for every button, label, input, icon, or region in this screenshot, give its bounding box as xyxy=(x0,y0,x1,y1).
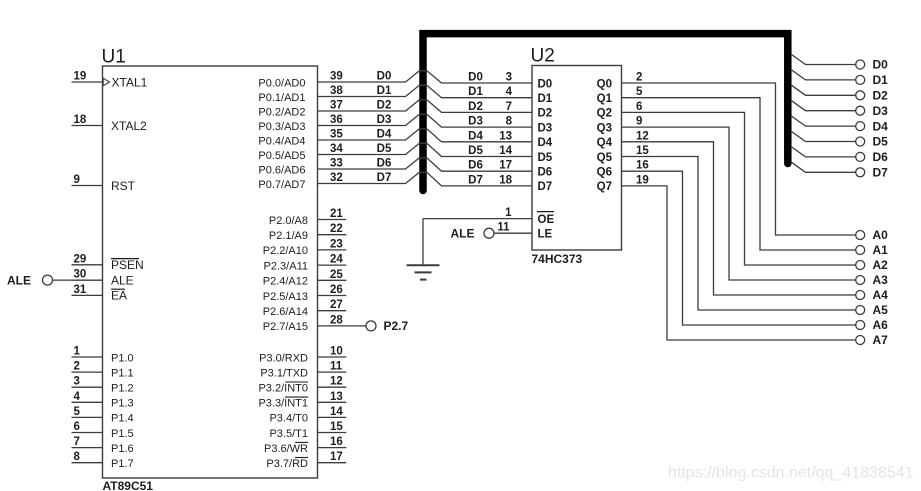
svg-text:P0.5/AD5: P0.5/AD5 xyxy=(258,150,305,162)
svg-text:P0.3/AD3: P0.3/AD3 xyxy=(258,121,305,133)
svg-text:36: 36 xyxy=(330,114,343,126)
svg-text:P3.1/TXD: P3.1/TXD xyxy=(260,367,308,379)
svg-text:P2.4/A12: P2.4/A12 xyxy=(263,276,308,288)
U2 labels D7 / Q7 xyxy=(538,181,613,193)
svg-text:P1.6: P1.6 xyxy=(111,443,134,455)
U1 pin 31 EA (active low) xyxy=(72,284,128,303)
terminal D2 xyxy=(856,89,888,103)
svg-text:XTAL1: XTAL1 xyxy=(112,75,148,89)
terminal ALE (at U2 LE) xyxy=(451,227,495,241)
terminal A7 xyxy=(856,333,888,347)
svg-text:14: 14 xyxy=(330,406,343,418)
svg-text:35: 35 xyxy=(330,129,343,141)
svg-text:A1: A1 xyxy=(873,243,889,257)
svg-text:30: 30 xyxy=(74,269,87,281)
wire bus to terminal D7 xyxy=(792,162,856,172)
U1 pin 23 P2.2/A10 xyxy=(263,238,347,257)
U1 pin 9 RST xyxy=(72,174,136,193)
svg-text:9: 9 xyxy=(74,174,80,186)
svg-text:7: 7 xyxy=(74,436,80,448)
wire P0.5/AD5 from U1 to bus to U2 D5 xyxy=(258,143,532,162)
U2 pin 9 Q3 wire to terminal A3 xyxy=(622,116,856,280)
svg-text:16: 16 xyxy=(330,436,343,448)
svg-text:27: 27 xyxy=(330,299,343,311)
svg-text:3: 3 xyxy=(506,72,512,84)
wire bus to terminal D1 xyxy=(792,70,856,80)
bus AD0-AD7 (thick) xyxy=(423,34,788,191)
svg-text:17: 17 xyxy=(330,451,343,463)
svg-text:P0.7/AD7: P0.7/AD7 xyxy=(258,179,305,191)
svg-text:P0.1/AD1: P0.1/AD1 xyxy=(258,92,305,104)
wire bus to terminal D3 xyxy=(792,101,856,111)
svg-text:16: 16 xyxy=(636,160,649,172)
svg-text:P1.3: P1.3 xyxy=(111,398,134,410)
svg-text:6: 6 xyxy=(636,101,642,113)
svg-text:28: 28 xyxy=(330,314,343,326)
svg-text:12: 12 xyxy=(330,376,343,388)
svg-text:P2.7/A15: P2.7/A15 xyxy=(263,321,308,333)
svg-text:D5: D5 xyxy=(873,135,889,149)
svg-text:https://blog.csdn.net/qq_41838: https://blog.csdn.net/qq_41838541 xyxy=(668,465,914,482)
svg-text:OE: OE xyxy=(538,214,555,226)
U2 labels D0 / Q0 xyxy=(538,78,613,90)
terminal P2.7 xyxy=(366,319,409,333)
svg-text:Q7: Q7 xyxy=(597,181,612,193)
svg-text:D1: D1 xyxy=(468,86,483,98)
svg-text:19: 19 xyxy=(636,174,649,186)
svg-text:1: 1 xyxy=(74,346,81,358)
wire P0.0/AD0 from U1 to bus to U2 D0 xyxy=(258,71,532,90)
U2 pin 15 Q5 wire to terminal A5 xyxy=(622,145,856,310)
U2 pin 11 LE xyxy=(494,222,553,241)
svg-text:6: 6 xyxy=(74,421,80,433)
wire P0.4/AD4 from U1 to bus to U2 D4 xyxy=(258,129,532,148)
svg-text:ALE: ALE xyxy=(451,227,475,241)
svg-text:D7: D7 xyxy=(873,166,889,180)
svg-text:11: 11 xyxy=(497,222,510,234)
U1 pin 15 P3.5/T1 xyxy=(269,421,346,440)
svg-text:26: 26 xyxy=(330,284,343,296)
wire P0.7/AD7 from U1 to bus to U2 D7 xyxy=(258,172,532,191)
svg-text:15: 15 xyxy=(636,145,649,157)
svg-text:2: 2 xyxy=(636,72,642,84)
svg-text:13: 13 xyxy=(499,130,512,142)
svg-text:38: 38 xyxy=(330,85,343,97)
U1 pin 21 P2.0/A8 xyxy=(269,208,346,227)
svg-text:D2: D2 xyxy=(468,101,483,113)
wire bus to terminal D2 xyxy=(792,85,856,95)
svg-text:A5: A5 xyxy=(873,303,889,317)
U2 pin 5 Q1 wire to terminal A1 xyxy=(622,86,856,250)
U1 pin 13 P3.3/INT1 xyxy=(258,391,346,410)
svg-text:8: 8 xyxy=(506,116,513,128)
svg-text:P2.0/A8: P2.0/A8 xyxy=(269,215,308,227)
U2 labels D5 / Q5 xyxy=(538,152,613,164)
svg-text:P2.6/A14: P2.6/A14 xyxy=(263,306,308,318)
svg-text:D7: D7 xyxy=(468,174,483,186)
svg-text:P2.1/A9: P2.1/A9 xyxy=(269,230,308,242)
terminal A6 xyxy=(856,318,888,332)
U1 pin 8 P1.7 xyxy=(72,451,134,470)
wire OE to ground xyxy=(422,219,424,265)
U1 pin 29 PSEN (active low) xyxy=(72,253,144,272)
svg-text:D0: D0 xyxy=(873,58,889,72)
wire bus to terminal D0 xyxy=(792,55,856,65)
svg-text:18: 18 xyxy=(74,114,87,126)
svg-text:Q3: Q3 xyxy=(597,122,612,134)
U1 pin 12 P3.2/INT0 xyxy=(258,376,346,395)
svg-text:PSEN: PSEN xyxy=(111,258,144,272)
svg-text:P1.5: P1.5 xyxy=(111,428,134,440)
U1 pin 26 P2.5/A13 xyxy=(263,284,347,303)
U1 pin 25 P2.4/A12 xyxy=(263,269,347,288)
svg-text:LE: LE xyxy=(538,229,553,241)
svg-text:P2.7: P2.7 xyxy=(384,319,409,333)
U2 pin 6 Q2 wire to terminal A2 xyxy=(622,101,856,265)
svg-text:A2: A2 xyxy=(873,258,889,272)
svg-text:D7: D7 xyxy=(377,172,392,184)
svg-text:ALE: ALE xyxy=(7,273,31,287)
svg-text:Q1: Q1 xyxy=(597,93,613,105)
svg-text:10: 10 xyxy=(330,346,343,358)
svg-text:D5: D5 xyxy=(538,152,553,164)
svg-text:D6: D6 xyxy=(468,160,483,172)
svg-text:8: 8 xyxy=(74,451,81,463)
svg-text:24: 24 xyxy=(330,254,343,266)
svg-text:Q5: Q5 xyxy=(597,152,613,164)
svg-text:D4: D4 xyxy=(873,119,889,133)
svg-text:31: 31 xyxy=(74,284,87,296)
svg-text:D3: D3 xyxy=(468,116,483,128)
svg-text:5: 5 xyxy=(74,406,81,418)
wire P0.2/AD2 from U1 to bus to U2 D2 xyxy=(258,100,532,119)
svg-text:17: 17 xyxy=(499,160,512,172)
svg-text:A6: A6 xyxy=(873,318,889,332)
terminal ALE (left) xyxy=(7,273,53,287)
U1 pin 4 P1.3 xyxy=(72,391,134,410)
wire bus to terminal D5 xyxy=(792,132,856,142)
svg-text:D4: D4 xyxy=(468,130,483,142)
wire ALE terminal to U1 pin 30 xyxy=(53,279,103,281)
U1 pin 11 P3.1/TXD xyxy=(260,361,346,380)
svg-text:Q6: Q6 xyxy=(597,167,612,179)
svg-text:23: 23 xyxy=(330,238,343,250)
U2 pin 2 Q0 wire to terminal A0 xyxy=(622,72,856,236)
svg-text:P1.4: P1.4 xyxy=(111,413,134,425)
svg-text:U2: U2 xyxy=(531,46,555,67)
svg-text:25: 25 xyxy=(330,269,343,281)
svg-text:7: 7 xyxy=(506,101,512,113)
svg-text:D6: D6 xyxy=(377,158,392,170)
svg-text:A3: A3 xyxy=(873,273,889,287)
svg-text:P1.7: P1.7 xyxy=(111,458,134,470)
svg-text:4: 4 xyxy=(506,86,513,98)
U1 pin 3 P1.2 xyxy=(72,376,134,395)
svg-text:P2.3/A11: P2.3/A11 xyxy=(264,260,308,272)
svg-text:P3.2/INT0: P3.2/INT0 xyxy=(258,383,308,395)
svg-text:1: 1 xyxy=(505,207,512,219)
wire P0.1/AD1 from U1 to bus to U2 D1 xyxy=(258,85,532,104)
svg-text:A4: A4 xyxy=(873,288,889,302)
terminal D4 xyxy=(856,119,888,133)
svg-text:D3: D3 xyxy=(873,104,889,118)
wire bus to terminal D6 xyxy=(792,147,856,157)
svg-text:D2: D2 xyxy=(377,100,392,112)
svg-text:5: 5 xyxy=(636,86,643,98)
svg-text:P3.4/T0: P3.4/T0 xyxy=(269,413,308,425)
svg-text:P0.6/AD6: P0.6/AD6 xyxy=(258,164,305,176)
svg-text:P1.2: P1.2 xyxy=(111,383,134,395)
U2 labels D1 / Q1 xyxy=(538,93,613,105)
svg-text:EA: EA xyxy=(111,289,127,303)
svg-text:P1.0: P1.0 xyxy=(111,352,134,364)
svg-text:21: 21 xyxy=(330,208,343,220)
svg-text:19: 19 xyxy=(74,71,87,83)
svg-text:D1: D1 xyxy=(377,85,392,97)
svg-text:33: 33 xyxy=(330,158,343,170)
svg-text:P2.2/A10: P2.2/A10 xyxy=(263,245,308,257)
U1 pin 6 P1.5 xyxy=(72,421,134,440)
svg-text:Q4: Q4 xyxy=(597,137,613,149)
svg-text:D5: D5 xyxy=(468,145,483,157)
watermark xyxy=(668,465,914,482)
U2 pin 19 Q7 wire to terminal A7 xyxy=(622,174,856,340)
U1 pin 1 P1.0 xyxy=(72,346,134,365)
chip U2 74HC373 body xyxy=(531,46,622,267)
svg-text:12: 12 xyxy=(636,130,649,142)
svg-text:P3.7/RD: P3.7/RD xyxy=(266,458,308,470)
U1 pin 7 P1.6 xyxy=(72,436,134,455)
U2 pin 16 Q6 wire to terminal A6 xyxy=(622,160,856,325)
svg-text:13: 13 xyxy=(330,391,343,403)
svg-text:14: 14 xyxy=(499,145,512,157)
U1 pin 14 P3.4/T0 xyxy=(269,406,346,425)
svg-text:P0.0/AD0: P0.0/AD0 xyxy=(258,77,305,89)
svg-text:P2.5/A13: P2.5/A13 xyxy=(263,291,308,303)
svg-text:P1.1: P1.1 xyxy=(111,367,134,379)
svg-text:RST: RST xyxy=(111,179,136,193)
U1 pin 5 P1.4 xyxy=(72,406,134,425)
svg-text:P3.5/T1: P3.5/T1 xyxy=(269,428,308,440)
svg-text:A7: A7 xyxy=(873,333,889,347)
svg-text:D4: D4 xyxy=(377,129,392,141)
svg-text:Q2: Q2 xyxy=(597,108,612,120)
svg-text:39: 39 xyxy=(330,71,343,83)
svg-text:D4: D4 xyxy=(538,137,553,149)
svg-text:XTAL2: XTAL2 xyxy=(111,119,147,133)
svg-text:AT89C51: AT89C51 xyxy=(103,479,154,491)
terminal A5 xyxy=(856,303,888,317)
terminal D3 xyxy=(856,104,888,118)
svg-text:D0: D0 xyxy=(538,78,553,90)
svg-text:A0: A0 xyxy=(873,228,889,242)
svg-text:22: 22 xyxy=(330,223,343,235)
wire P0.3/AD3 from U1 to bus to U2 D3 xyxy=(258,114,532,133)
svg-text:D0: D0 xyxy=(468,72,483,84)
U2 labels D3 / Q3 xyxy=(538,122,613,134)
svg-text:P3.3/INT1: P3.3/INT1 xyxy=(258,398,308,410)
ground xyxy=(407,265,440,279)
svg-text:29: 29 xyxy=(74,253,87,265)
svg-text:P0.2/AD2: P0.2/AD2 xyxy=(258,106,305,118)
svg-text:D5: D5 xyxy=(377,143,392,155)
U1 pin 16 P3.6/WR xyxy=(264,436,346,455)
svg-text:9: 9 xyxy=(636,116,642,128)
U1 pin 10 P3.0/RXD xyxy=(259,346,346,365)
svg-text:74HC373: 74HC373 xyxy=(532,252,583,266)
U1 pin 19 XTAL1 xyxy=(72,71,148,90)
svg-text:11: 11 xyxy=(330,361,343,373)
U2 pin 1 OE (active low) xyxy=(423,207,554,226)
terminal D1 xyxy=(856,73,888,87)
terminal D6 xyxy=(856,150,888,164)
chip U1 AT89C51 body xyxy=(102,47,318,491)
svg-text:32: 32 xyxy=(330,172,343,184)
svg-text:ALE: ALE xyxy=(111,273,134,287)
U1 pin 30 ALE xyxy=(72,269,134,288)
svg-text:37: 37 xyxy=(330,100,343,112)
terminal A1 xyxy=(856,243,888,257)
svg-text:2: 2 xyxy=(74,361,80,373)
U1 pin 27 P2.6/A14 xyxy=(263,299,347,318)
terminal A3 xyxy=(856,273,888,287)
wire P0.6/AD6 from U1 to bus to U2 D6 xyxy=(258,158,532,177)
terminal D7 xyxy=(856,166,888,180)
svg-text:18: 18 xyxy=(499,174,512,186)
svg-text:P3.0/RXD: P3.0/RXD xyxy=(259,352,308,364)
svg-text:D1: D1 xyxy=(873,73,889,87)
U2 labels D2 / Q2 xyxy=(538,108,613,120)
wire bus to terminal D4 xyxy=(792,116,856,126)
svg-text:U1: U1 xyxy=(102,47,126,68)
U2 labels D4 / Q4 xyxy=(538,137,613,149)
svg-text:D6: D6 xyxy=(538,167,553,179)
svg-text:D7: D7 xyxy=(538,181,553,193)
svg-text:D2: D2 xyxy=(873,89,889,103)
svg-text:3: 3 xyxy=(74,376,80,388)
U2 labels D6 / Q6 xyxy=(538,167,613,179)
U2 pin 12 Q4 wire to terminal A4 xyxy=(622,130,856,295)
svg-text:D2: D2 xyxy=(538,108,553,120)
svg-text:4: 4 xyxy=(74,391,81,403)
U1 pin 22 P2.1/A9 xyxy=(269,223,346,242)
U1 pin 2 P1.1 xyxy=(72,361,134,380)
svg-text:D6: D6 xyxy=(873,150,889,164)
svg-text:34: 34 xyxy=(330,143,343,155)
terminal A0 xyxy=(856,228,888,242)
U1 pin 18 XTAL2 xyxy=(72,114,148,133)
svg-text:P0.4/AD4: P0.4/AD4 xyxy=(258,135,305,147)
U1 pin 24 P2.3/A11 xyxy=(264,254,347,273)
svg-text:D0: D0 xyxy=(377,71,392,83)
terminal D0 xyxy=(856,58,888,72)
U1 pin 28 P2.7/A15 xyxy=(263,314,366,333)
terminal A2 xyxy=(856,258,888,272)
terminal A4 xyxy=(856,288,888,302)
svg-text:15: 15 xyxy=(330,421,343,433)
svg-text:P3.6/WR: P3.6/WR xyxy=(264,443,308,455)
U1 pin 17 P3.7/RD xyxy=(266,451,346,470)
svg-text:Q0: Q0 xyxy=(597,78,612,90)
svg-text:D3: D3 xyxy=(377,114,392,126)
terminal D5 xyxy=(856,135,888,149)
svg-text:D1: D1 xyxy=(538,93,553,105)
svg-text:D3: D3 xyxy=(538,122,553,134)
